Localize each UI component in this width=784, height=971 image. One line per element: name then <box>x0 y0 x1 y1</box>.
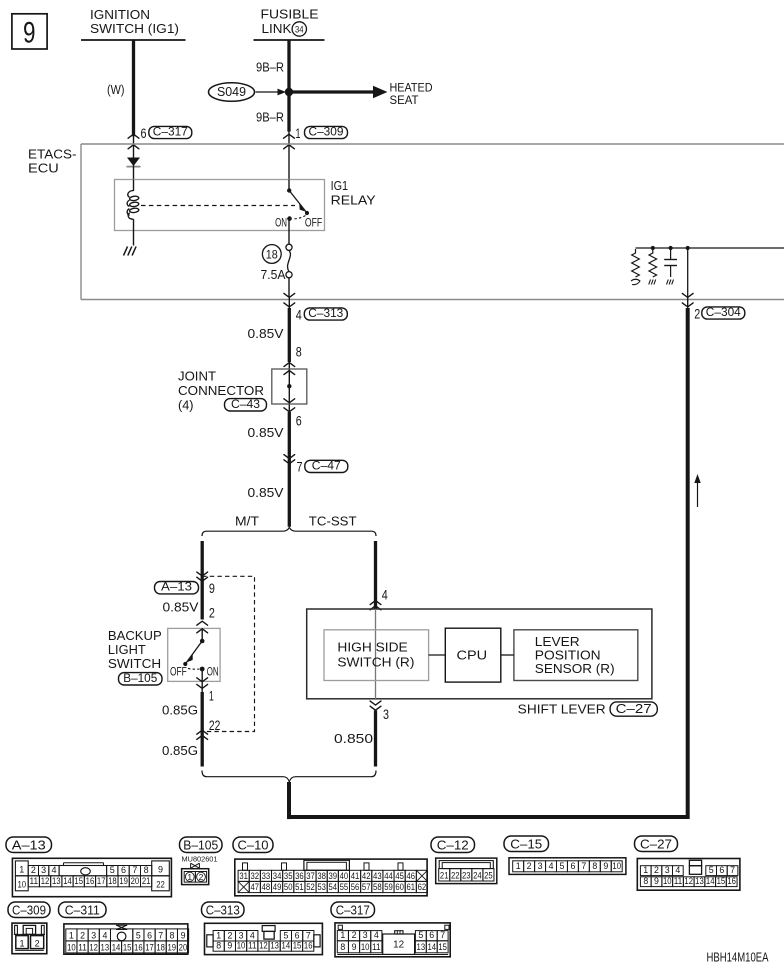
svg-text:OFF: OFF <box>305 215 322 229</box>
svg-text:3: 3 <box>383 707 389 722</box>
svg-text:20: 20 <box>131 876 140 886</box>
svg-text:13: 13 <box>52 876 61 886</box>
svg-text:8: 8 <box>296 345 302 360</box>
svg-text:3: 3 <box>41 865 46 875</box>
svg-text:18: 18 <box>156 942 165 952</box>
svg-text:12: 12 <box>393 938 404 950</box>
svg-text:C–10: C–10 <box>238 837 269 852</box>
svg-text:7: 7 <box>440 930 445 940</box>
svg-text:57: 57 <box>362 882 371 892</box>
svg-text:22: 22 <box>451 870 460 880</box>
svg-text:6: 6 <box>719 865 724 875</box>
svg-text:44: 44 <box>384 871 393 881</box>
svg-text:32: 32 <box>251 871 260 881</box>
svg-text:23: 23 <box>462 870 471 880</box>
svg-text:8: 8 <box>144 865 149 875</box>
svg-text:17: 17 <box>97 876 106 886</box>
svg-text:7.5A: 7.5A <box>261 268 287 282</box>
svg-text:5: 5 <box>560 861 565 871</box>
svg-text:JOINT: JOINT <box>178 369 216 384</box>
svg-text:10: 10 <box>361 942 370 952</box>
svg-text:CONNECTOR: CONNECTOR <box>178 383 264 398</box>
svg-text:11: 11 <box>30 876 39 886</box>
svg-text:2: 2 <box>80 930 85 940</box>
svg-text:19: 19 <box>168 942 177 952</box>
svg-text:36: 36 <box>295 871 304 881</box>
svg-text:14: 14 <box>282 941 291 951</box>
svg-text:8: 8 <box>592 861 597 871</box>
svg-text:3: 3 <box>538 861 543 871</box>
svg-text:9: 9 <box>352 942 357 952</box>
svg-text:8: 8 <box>169 930 174 940</box>
svg-text:9: 9 <box>23 16 36 49</box>
svg-text:38: 38 <box>317 871 326 881</box>
svg-text:11: 11 <box>248 941 257 951</box>
svg-text:1: 1 <box>296 126 301 141</box>
svg-text:3: 3 <box>239 930 244 940</box>
svg-text:16: 16 <box>727 876 736 886</box>
svg-text:7: 7 <box>132 865 137 875</box>
svg-text:10: 10 <box>612 861 621 871</box>
svg-text:0.850: 0.850 <box>334 731 373 746</box>
svg-text:54: 54 <box>328 882 337 892</box>
svg-text:ON: ON <box>207 667 219 679</box>
svg-text:2: 2 <box>209 606 215 621</box>
svg-text:5: 5 <box>709 865 714 875</box>
svg-text:9B–R: 9B–R <box>256 110 284 125</box>
svg-text:(4): (4) <box>178 398 194 413</box>
svg-text:0.85V: 0.85V <box>163 600 199 615</box>
svg-text:6: 6 <box>295 930 300 940</box>
svg-text:35: 35 <box>284 871 293 881</box>
svg-text:4: 4 <box>675 865 680 875</box>
svg-text:60: 60 <box>395 882 404 892</box>
svg-text:9: 9 <box>603 861 608 871</box>
svg-text:12: 12 <box>259 941 268 951</box>
svg-text:A–13: A–13 <box>12 837 46 852</box>
svg-text:RELAY: RELAY <box>331 193 376 208</box>
svg-text:C–47: C–47 <box>312 458 341 472</box>
svg-text:MU802601: MU802601 <box>182 855 218 864</box>
svg-text:7: 7 <box>581 861 586 871</box>
svg-text:4: 4 <box>382 588 388 603</box>
svg-text:15: 15 <box>717 876 726 886</box>
svg-text:50: 50 <box>284 882 293 892</box>
svg-text:1: 1 <box>19 865 24 875</box>
svg-text:ON: ON <box>275 215 287 229</box>
svg-text:13: 13 <box>695 876 704 886</box>
svg-text:12: 12 <box>89 942 98 952</box>
svg-text:5: 5 <box>136 930 141 940</box>
svg-text:C–309: C–309 <box>12 903 46 917</box>
svg-text:31: 31 <box>239 871 248 881</box>
svg-text:55: 55 <box>340 882 349 892</box>
svg-text:(W): (W) <box>107 82 125 97</box>
svg-text:2: 2 <box>35 939 40 949</box>
svg-text:3: 3 <box>665 865 670 875</box>
svg-text:45: 45 <box>395 871 404 881</box>
svg-text:17: 17 <box>145 942 154 952</box>
svg-text:62: 62 <box>418 882 427 892</box>
svg-text:SWITCH (IG1): SWITCH (IG1) <box>90 21 179 36</box>
svg-text:20: 20 <box>179 942 188 952</box>
svg-text:52: 52 <box>306 882 315 892</box>
svg-text:5: 5 <box>418 930 423 940</box>
svg-text:M/T: M/T <box>235 514 259 529</box>
svg-text:HIGH SIDE: HIGH SIDE <box>337 640 408 655</box>
svg-text:11: 11 <box>78 942 87 952</box>
svg-text:13: 13 <box>417 942 426 952</box>
svg-text:5: 5 <box>283 930 288 940</box>
svg-text:8: 8 <box>340 942 345 952</box>
svg-text:2: 2 <box>527 861 532 871</box>
svg-text:4: 4 <box>102 930 107 940</box>
svg-text:33: 33 <box>262 871 271 881</box>
svg-text:HBH14M10EA: HBH14M10EA <box>707 951 769 965</box>
svg-text:C–27: C–27 <box>616 701 652 716</box>
svg-text:7: 7 <box>306 930 311 940</box>
svg-text:SWITCH (R): SWITCH (R) <box>337 655 414 670</box>
svg-text:4: 4 <box>250 930 255 940</box>
svg-text:6: 6 <box>296 414 302 429</box>
svg-text:5: 5 <box>110 865 115 875</box>
svg-text:0.85V: 0.85V <box>248 485 284 500</box>
svg-text:9: 9 <box>158 865 163 875</box>
svg-text:16: 16 <box>86 876 95 886</box>
svg-text:3: 3 <box>91 930 96 940</box>
svg-text:15: 15 <box>123 942 132 952</box>
svg-text:1: 1 <box>516 861 521 871</box>
svg-text:59: 59 <box>384 882 393 892</box>
svg-text:C–304: C–304 <box>706 305 741 319</box>
svg-text:C–12: C–12 <box>437 837 469 852</box>
svg-text:FUSIBLE: FUSIBLE <box>261 6 319 21</box>
svg-text:SEAT: SEAT <box>390 93 420 107</box>
svg-text:22: 22 <box>156 880 165 890</box>
svg-text:34: 34 <box>295 24 304 34</box>
svg-text:15: 15 <box>74 876 83 886</box>
svg-text:11: 11 <box>372 942 381 952</box>
svg-text:2: 2 <box>694 307 700 322</box>
svg-text:1: 1 <box>19 939 24 949</box>
svg-text:43: 43 <box>373 871 382 881</box>
svg-text:40: 40 <box>340 871 349 881</box>
svg-text:LIGHT: LIGHT <box>108 642 146 657</box>
svg-text:53: 53 <box>317 882 326 892</box>
svg-text:56: 56 <box>351 882 360 892</box>
svg-text:18: 18 <box>266 248 278 262</box>
svg-text:1: 1 <box>340 930 345 940</box>
svg-text:10: 10 <box>663 876 672 886</box>
svg-text:6: 6 <box>570 861 575 871</box>
svg-text:1: 1 <box>209 689 214 704</box>
svg-text:6: 6 <box>429 930 434 940</box>
svg-text:A–13: A–13 <box>161 580 192 594</box>
svg-text:13: 13 <box>270 941 279 951</box>
svg-text:7: 7 <box>297 460 303 475</box>
svg-text:39: 39 <box>328 871 337 881</box>
svg-text:TC-SST: TC-SST <box>309 514 357 529</box>
svg-text:21: 21 <box>142 876 151 886</box>
svg-text:IGNITION: IGNITION <box>90 7 150 22</box>
svg-text:16: 16 <box>134 942 143 952</box>
svg-text:8: 8 <box>643 876 648 886</box>
svg-text:BACKUP: BACKUP <box>108 628 162 643</box>
svg-text:2: 2 <box>31 865 36 875</box>
svg-text:14: 14 <box>63 876 72 886</box>
svg-text:47: 47 <box>251 882 260 892</box>
svg-text:3: 3 <box>363 930 368 940</box>
svg-text:10: 10 <box>237 941 246 951</box>
svg-text:1: 1 <box>216 930 221 940</box>
svg-text:14: 14 <box>112 942 121 952</box>
svg-text:25: 25 <box>484 870 493 880</box>
svg-text:37: 37 <box>306 871 315 881</box>
svg-text:4: 4 <box>549 861 554 871</box>
svg-text:C–317: C–317 <box>336 903 370 917</box>
svg-text:12: 12 <box>684 876 693 886</box>
svg-text:2: 2 <box>227 930 232 940</box>
svg-text:1: 1 <box>69 930 74 940</box>
svg-text:OFF: OFF <box>170 667 187 679</box>
svg-text:1: 1 <box>643 865 648 875</box>
svg-text:15: 15 <box>293 941 302 951</box>
svg-text:2: 2 <box>654 865 659 875</box>
svg-text:9: 9 <box>654 876 659 886</box>
svg-text:7: 7 <box>158 930 163 940</box>
svg-text:9: 9 <box>209 581 215 596</box>
svg-text:C–311: C–311 <box>65 903 100 917</box>
svg-text:4: 4 <box>51 865 56 875</box>
svg-text:10: 10 <box>18 880 27 890</box>
svg-text:B–105: B–105 <box>123 671 157 685</box>
svg-text:9: 9 <box>181 930 186 940</box>
svg-text:11: 11 <box>674 876 683 886</box>
svg-text:6: 6 <box>147 930 152 940</box>
svg-text:ECU: ECU <box>28 161 59 176</box>
svg-text:S049: S049 <box>217 85 246 99</box>
svg-text:48: 48 <box>262 882 271 892</box>
svg-text:C–313: C–313 <box>308 306 343 320</box>
svg-text:22: 22 <box>209 718 221 733</box>
svg-text:IG1: IG1 <box>331 178 349 193</box>
svg-text:10: 10 <box>67 942 76 952</box>
svg-text:6: 6 <box>121 865 126 875</box>
svg-text:C–317: C–317 <box>153 124 188 138</box>
svg-text:14: 14 <box>427 942 436 952</box>
svg-text:SHIFT LEVER: SHIFT LEVER <box>518 702 606 717</box>
svg-text:C–309: C–309 <box>309 124 344 138</box>
svg-text:9B–R: 9B–R <box>256 60 284 75</box>
svg-text:16: 16 <box>304 941 313 951</box>
svg-text:LINK: LINK <box>262 21 292 36</box>
svg-text:SWITCH: SWITCH <box>108 656 161 671</box>
svg-text:C–313: C–313 <box>206 903 240 917</box>
svg-text:0.85G: 0.85G <box>162 743 198 758</box>
svg-text:6: 6 <box>141 126 147 141</box>
svg-text:C–43: C–43 <box>231 397 260 411</box>
svg-text:7: 7 <box>730 865 735 875</box>
svg-text:CPU: CPU <box>457 647 488 662</box>
svg-text:14: 14 <box>706 876 715 886</box>
svg-text:61: 61 <box>406 882 415 892</box>
svg-text:21: 21 <box>440 870 449 880</box>
svg-text:B–105: B–105 <box>183 838 218 852</box>
svg-text:34: 34 <box>273 871 282 881</box>
svg-text:0.85V: 0.85V <box>248 326 284 341</box>
svg-text:58: 58 <box>373 882 382 892</box>
svg-text:0.85G: 0.85G <box>162 703 198 718</box>
svg-text:42: 42 <box>362 871 371 881</box>
svg-text:18: 18 <box>108 876 117 886</box>
svg-text:4: 4 <box>374 930 379 940</box>
svg-text:9: 9 <box>227 941 232 951</box>
svg-text:ETACS-: ETACS- <box>28 147 77 162</box>
svg-text:13: 13 <box>101 942 110 952</box>
svg-text:4: 4 <box>296 308 302 323</box>
svg-text:SENSOR (R): SENSOR (R) <box>535 661 615 676</box>
svg-text:C–15: C–15 <box>510 836 542 851</box>
svg-text:41: 41 <box>351 871 360 881</box>
svg-text:46: 46 <box>406 871 415 881</box>
svg-text:C–27: C–27 <box>640 836 672 851</box>
svg-text:49: 49 <box>273 882 282 892</box>
svg-text:2: 2 <box>352 930 357 940</box>
svg-text:8: 8 <box>216 941 221 951</box>
svg-text:12: 12 <box>41 876 50 886</box>
svg-text:15: 15 <box>438 942 447 952</box>
svg-text:19: 19 <box>119 876 128 886</box>
svg-text:24: 24 <box>473 870 482 880</box>
svg-text:0.85V: 0.85V <box>248 425 284 440</box>
svg-text:51: 51 <box>295 882 304 892</box>
